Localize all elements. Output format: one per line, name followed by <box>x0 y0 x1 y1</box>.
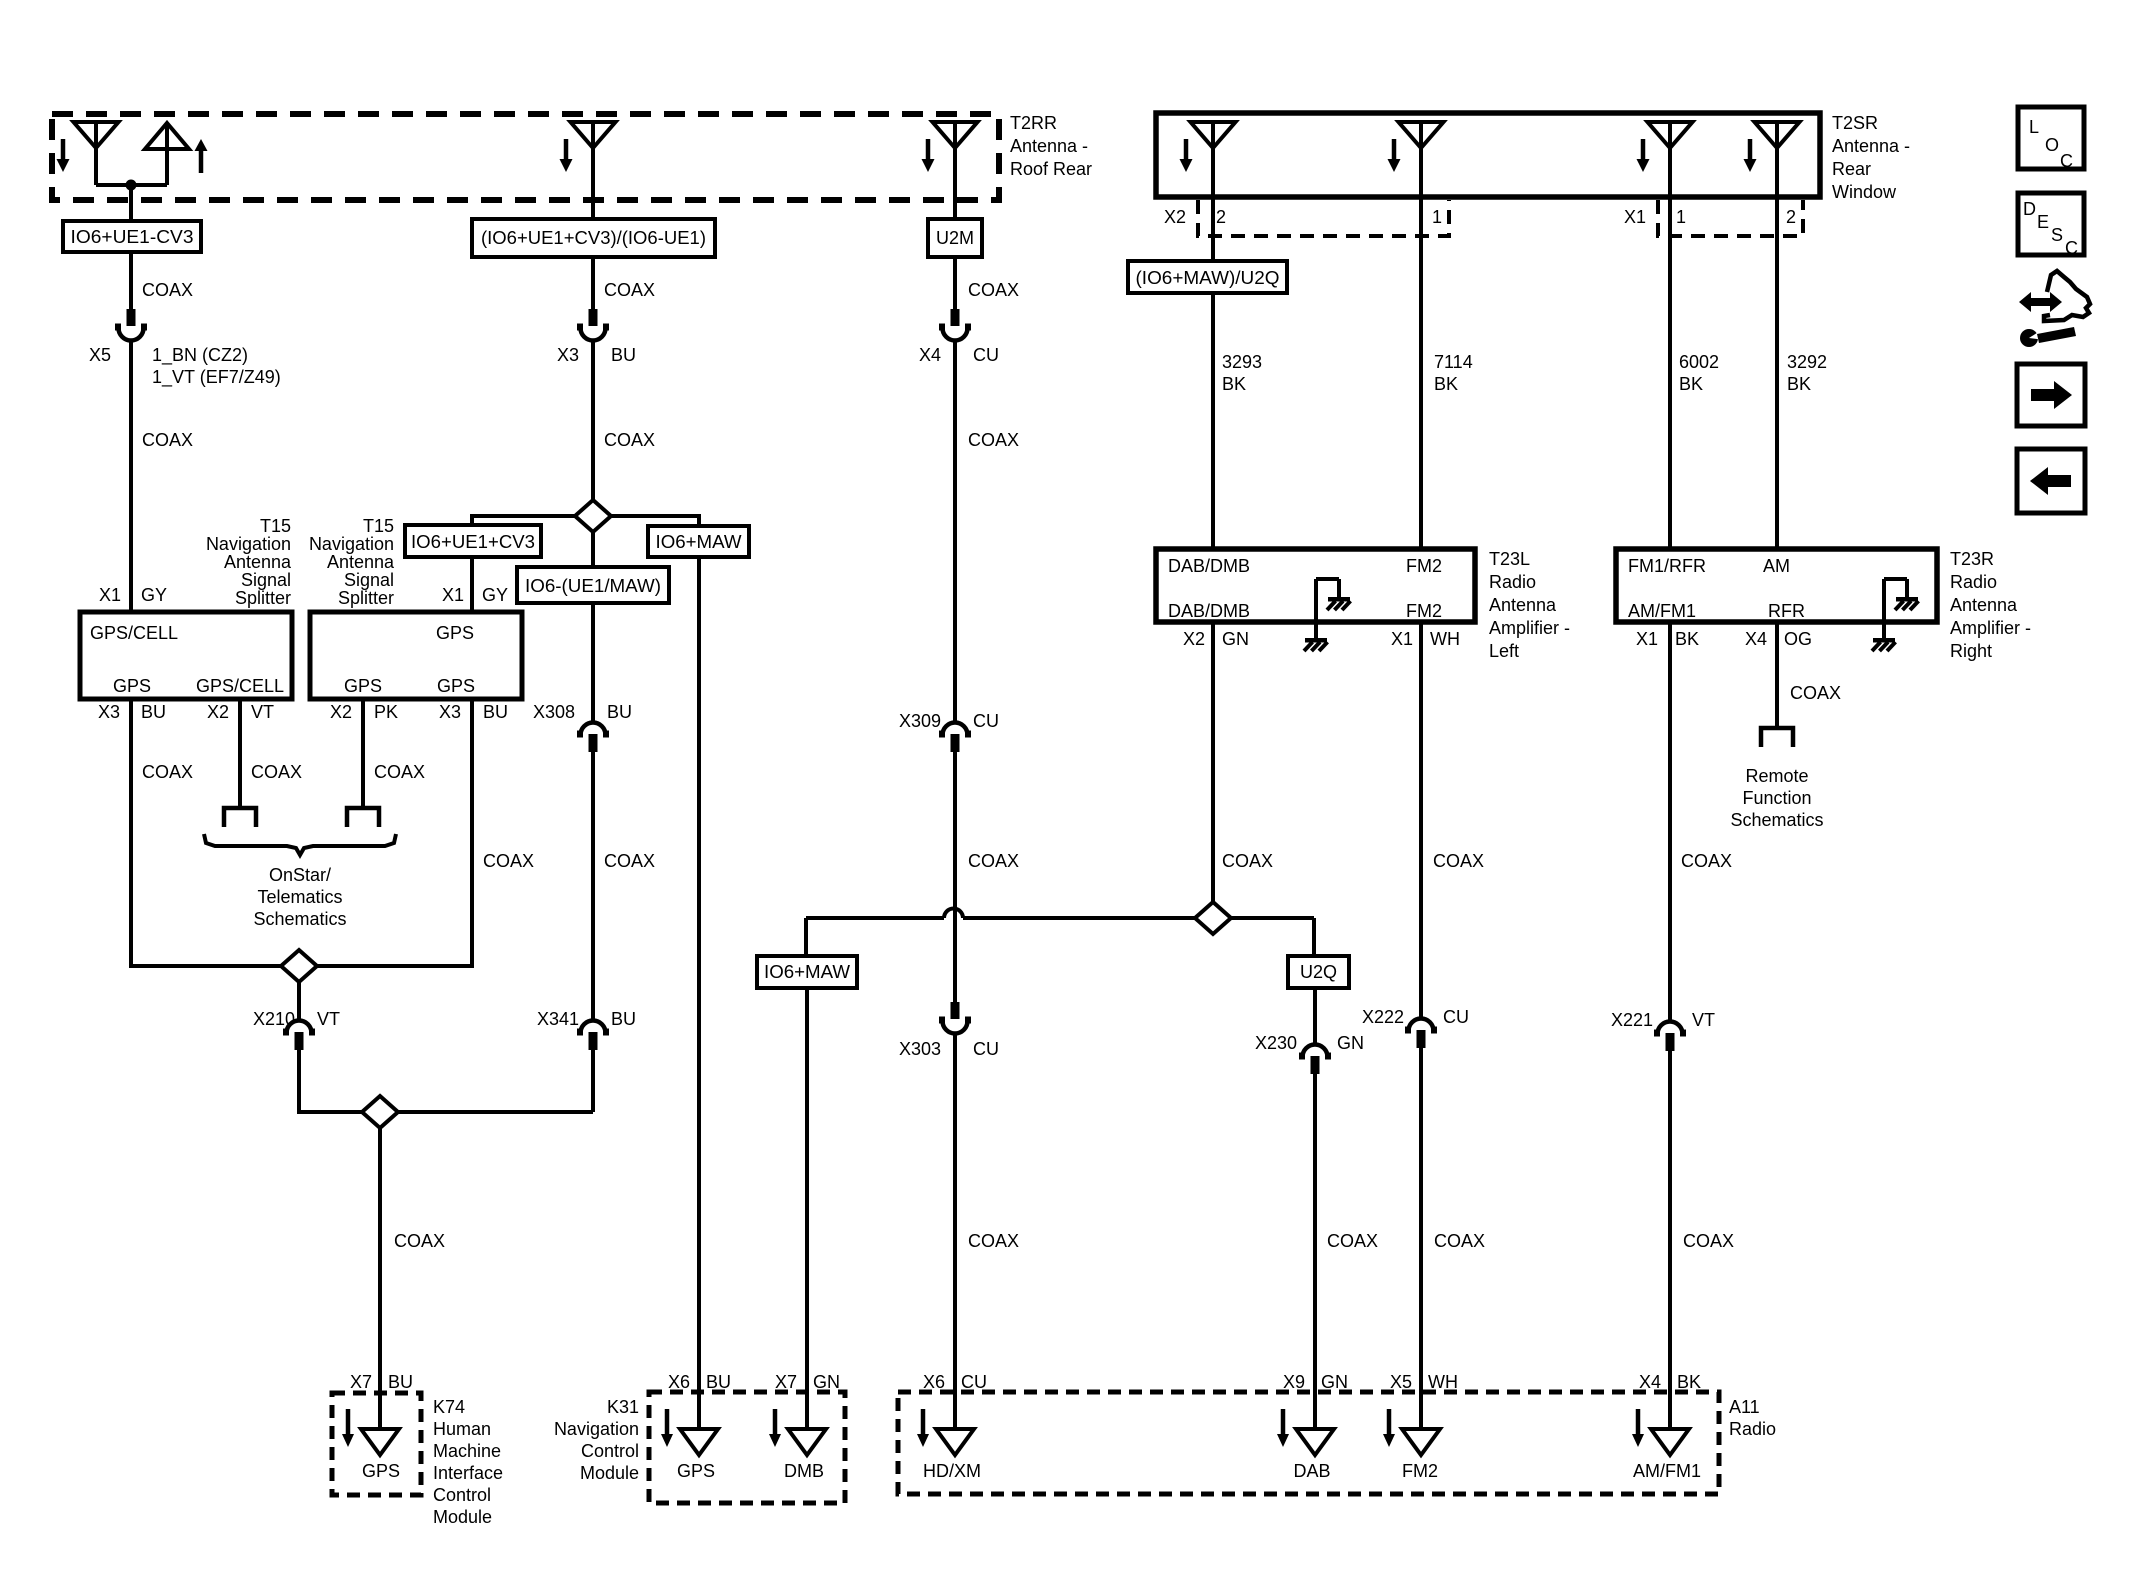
svg-text:GPS: GPS <box>344 676 382 696</box>
svg-text:DAB: DAB <box>1293 1461 1330 1481</box>
connector X5 <box>127 309 136 326</box>
arrow down K74 <box>346 1409 351 1434</box>
antenna T2SR element 3 <box>1648 122 1693 148</box>
svg-text:COAX: COAX <box>968 1231 1019 1251</box>
svg-text:AM/FM1: AM/FM1 <box>1628 601 1696 621</box>
svg-text:X6: X6 <box>668 1372 690 1392</box>
arrow down (receive) <box>61 139 66 159</box>
svg-text:2: 2 <box>1216 207 1226 227</box>
svg-text:COAX: COAX <box>483 851 534 871</box>
ground T23R outer <box>1873 638 1895 643</box>
svg-text:Interface: Interface <box>433 1463 503 1483</box>
svg-text:VT: VT <box>251 702 274 722</box>
svg-text:X230: X230 <box>1255 1033 1297 1053</box>
svg-text:(IO6+UE1+CV3)/(IO6-UE1): (IO6+UE1+CV3)/(IO6-UE1) <box>481 228 706 248</box>
svg-text:X210: X210 <box>253 1009 295 1029</box>
svg-text:HD/XM: HD/XM <box>923 1461 981 1481</box>
svg-text:FM1/RFR: FM1/RFR <box>1628 556 1706 576</box>
wire splitter2 GPS (X3 BU) down to horizontal <box>470 699 474 968</box>
svg-text:X309: X309 <box>899 711 941 731</box>
svg-text:COAX: COAX <box>1790 683 1841 703</box>
svg-text:IO6+UE1+CV3: IO6+UE1+CV3 <box>411 532 535 552</box>
arrow down T2SR element 3 <box>1641 139 1646 159</box>
svg-text:BU: BU <box>388 1372 413 1392</box>
svg-text:A11: A11 <box>1729 1397 1760 1417</box>
arrow down A11 AM/FM1 <box>1636 1409 1641 1434</box>
svg-text:E: E <box>2037 212 2049 232</box>
connector X303 <box>951 1002 960 1019</box>
svg-text:Antenna: Antenna <box>1489 595 1557 615</box>
svg-text:AM: AM <box>1763 556 1790 576</box>
ground T23L outer <box>1305 638 1327 643</box>
svg-text:COAX: COAX <box>1681 851 1732 871</box>
svg-text:GPS/CELL: GPS/CELL <box>90 623 178 643</box>
svg-text:RFR: RFR <box>1768 601 1805 621</box>
module K31 Navigation Control Module (dashed box) <box>649 1392 845 1503</box>
svg-text:T2RR: T2RR <box>1010 113 1057 133</box>
svg-text:GPS: GPS <box>113 676 151 696</box>
svg-text:Antenna: Antenna <box>327 552 395 572</box>
svg-text:X3: X3 <box>98 702 120 722</box>
wire mast center antenna <box>591 122 595 219</box>
svg-text:COAX: COAX <box>374 762 425 782</box>
svg-text:FM2: FM2 <box>1406 601 1442 621</box>
svg-text:X2: X2 <box>1183 629 1205 649</box>
icon compare wrench <box>2020 329 2038 347</box>
wire horizontal y=1112 <box>299 1110 593 1114</box>
svg-text:COAX: COAX <box>1433 851 1484 871</box>
svg-text:C: C <box>2065 238 2078 258</box>
wire T2SR X1 pin1 to T23R FM1/RFR <box>1668 197 1672 549</box>
svg-text:BK: BK <box>1222 374 1246 394</box>
wire U2M box to X4 <box>953 257 957 310</box>
svg-text:CU: CU <box>1443 1007 1469 1027</box>
off-page bracket (Remote Function) <box>1761 728 1793 747</box>
svg-text:L: L <box>2029 117 2039 137</box>
junction dot <box>126 180 137 191</box>
svg-text:X7: X7 <box>775 1372 797 1392</box>
svg-text:COAX: COAX <box>142 762 193 782</box>
arrow down A11 HD/XM <box>921 1409 926 1434</box>
wire mast T2SR element 1 <box>1211 122 1215 197</box>
svg-text:X5: X5 <box>1390 1372 1412 1392</box>
svg-text:X1: X1 <box>1636 629 1658 649</box>
svg-text:Radio: Radio <box>1729 1419 1776 1439</box>
svg-text:CU: CU <box>973 711 999 731</box>
antenna symbol A11 AM/FM1 <box>1651 1429 1689 1455</box>
wire X222 down to A11 FM2 <box>1419 1048 1423 1430</box>
svg-text:GPS: GPS <box>437 676 475 696</box>
component T23L Radio Antenna Amplifier - Left box <box>1156 549 1475 622</box>
svg-text:IO6+MAW: IO6+MAW <box>764 962 850 982</box>
component T23R Radio Antenna Amplifier - Right box <box>1616 549 1937 622</box>
svg-text:COAX: COAX <box>604 430 655 450</box>
svg-text:COAX: COAX <box>968 430 1019 450</box>
wire splitter1 GPS/CELL (X2 VT) to OnStar bracket <box>238 699 242 810</box>
svg-text:X4: X4 <box>1639 1372 1661 1392</box>
svg-text:3293: 3293 <box>1222 352 1262 372</box>
svg-text:COAX: COAX <box>604 851 655 871</box>
wire X341 to horizontal junction <box>591 1050 595 1112</box>
svg-text:X308: X308 <box>533 702 575 722</box>
svg-text:2: 2 <box>1786 207 1796 227</box>
wire diamond to X210 <box>297 981 301 1020</box>
svg-text:X341: X341 <box>537 1009 579 1029</box>
svg-text:IO6+MAW: IO6+MAW <box>656 532 742 552</box>
svg-text:COAX: COAX <box>142 430 193 450</box>
svg-text:Rear: Rear <box>1832 159 1871 179</box>
component T15 Navigation Antenna Signal Splitter box (right) <box>310 612 522 699</box>
svg-text:Navigation: Navigation <box>206 534 291 554</box>
svg-text:GPS: GPS <box>362 1461 400 1481</box>
connector X1 dashed bracket under T2SR <box>1658 200 1803 236</box>
splice diamond at 1213,918 <box>1195 902 1231 934</box>
svg-text:T23R: T23R <box>1950 549 1994 569</box>
svg-text:Navigation: Navigation <box>309 534 394 554</box>
connector X3 <box>589 309 598 326</box>
svg-text:COAX: COAX <box>1683 1231 1734 1251</box>
svg-text:WH: WH <box>1428 1372 1458 1392</box>
wire hop over x=955 <box>944 909 963 919</box>
arrow down T2SR element 2 <box>1392 139 1397 159</box>
svg-text:X3: X3 <box>557 345 579 365</box>
module A11 Radio (dashed box) <box>898 1392 1719 1494</box>
svg-text:DAB/DMB: DAB/DMB <box>1168 556 1250 576</box>
svg-text:X9: X9 <box>1283 1372 1305 1392</box>
wire mast T2SR element 2 <box>1419 122 1423 197</box>
wire T2SR X1 pin2 to T23R AM <box>1775 197 1779 549</box>
svg-text:COAX: COAX <box>251 762 302 782</box>
icon compare outline <box>2044 271 2090 321</box>
svg-text:Human: Human <box>433 1419 491 1439</box>
connector X221 <box>1658 1022 1683 1035</box>
svg-text:Amplifier -: Amplifier - <box>1489 618 1570 638</box>
wire IO6+MAW box down to K31 GPS <box>697 557 701 1430</box>
antenna T2SR element 2 <box>1399 122 1444 148</box>
wire horizontal y=918 left segment <box>806 916 944 920</box>
wire X3 to diamond <box>591 340 595 500</box>
wire X4 to X309 <box>953 340 957 722</box>
arrow down A11 FM2 <box>1387 1409 1392 1434</box>
svg-text:3292: 3292 <box>1787 352 1827 372</box>
connector X2 dashed bracket under T2SR <box>1198 200 1449 236</box>
svg-text:Left: Left <box>1489 641 1519 661</box>
svg-text:T2SR: T2SR <box>1832 113 1878 133</box>
svg-text:Antenna -: Antenna - <box>1010 136 1088 156</box>
svg-text:O: O <box>2045 135 2059 155</box>
wire splitter1 GPS (X3 BU) down to horizontal <box>129 699 133 968</box>
svg-text:Antenna: Antenna <box>1950 595 2018 615</box>
svg-text:Radio: Radio <box>1489 572 1536 592</box>
svg-text:Function: Function <box>1742 788 1811 808</box>
svg-text:BU: BU <box>141 702 166 722</box>
module T2RR Antenna - Roof Rear (dashed box) <box>52 114 999 200</box>
svg-text:U2M: U2M <box>936 228 974 248</box>
ground wire T23L <box>1314 579 1318 638</box>
wire T2SR pin2 to (IO6+MAW)/U2Q box <box>1211 197 1215 261</box>
svg-text:FM2: FM2 <box>1406 556 1442 576</box>
svg-text:X303: X303 <box>899 1039 941 1059</box>
splice diamond at 380,1112 <box>362 1096 398 1128</box>
svg-text:BU: BU <box>607 702 632 722</box>
svg-text:BK: BK <box>1675 629 1699 649</box>
wire mast antenna1 to junction <box>94 122 98 185</box>
svg-text:COAX: COAX <box>1434 1231 1485 1251</box>
ground T23L inner <box>1328 597 1350 602</box>
svg-text:X1: X1 <box>442 585 464 605</box>
icon LOC box <box>2018 107 2084 169</box>
svg-text:WH: WH <box>1430 629 1460 649</box>
svg-text:U2Q: U2Q <box>1300 962 1337 982</box>
antenna symbol K31 GPS <box>680 1429 718 1455</box>
svg-text:Signal: Signal <box>344 570 394 590</box>
svg-text:Amplifier -: Amplifier - <box>1950 618 2031 638</box>
brace OnStar/Telematics <box>204 834 396 855</box>
arrow down K31 GPS <box>665 1409 670 1434</box>
icon compare double arrow <box>2019 292 2062 312</box>
svg-text:BU: BU <box>483 702 508 722</box>
ground T23R inner <box>1896 597 1918 602</box>
svg-text:COAX: COAX <box>1327 1231 1378 1251</box>
splice diamond at 299,966 <box>281 950 317 982</box>
svg-text:GPS/CELL: GPS/CELL <box>196 676 284 696</box>
svg-text:BU: BU <box>706 1372 731 1392</box>
svg-text:X221: X221 <box>1611 1010 1653 1030</box>
svg-text:Signal: Signal <box>241 570 291 590</box>
svg-text:BK: BK <box>1679 374 1703 394</box>
module T2SR Antenna - Rear Window (solid box) <box>1156 113 1820 197</box>
connector X4 <box>951 309 960 326</box>
wire left end down to IO6+MAW box 2 <box>804 918 808 956</box>
module K74 Human Machine Interface Control Module (dashed box) <box>332 1393 421 1495</box>
wire mast antenna2 to junction <box>165 123 169 185</box>
connector X309 <box>943 723 968 736</box>
svg-text:(IO6+MAW)/U2Q: (IO6+MAW)/U2Q <box>1136 268 1280 288</box>
svg-text:Antenna: Antenna <box>224 552 292 572</box>
wire mast right antenna <box>953 122 957 219</box>
svg-text:T23L: T23L <box>1489 549 1530 569</box>
svg-text:X1: X1 <box>99 585 121 605</box>
svg-text:Radio: Radio <box>1950 572 1997 592</box>
svg-text:X2: X2 <box>207 702 229 722</box>
svg-text:BK: BK <box>1434 374 1458 394</box>
svg-text:X4: X4 <box>919 345 941 365</box>
svg-text:BK: BK <box>1677 1372 1701 1392</box>
svg-text:BK: BK <box>1787 374 1811 394</box>
component T15 Navigation Antenna Signal Splitter box (left) <box>80 612 292 699</box>
connector X230 <box>1303 1045 1328 1058</box>
wire T23L DAB/DMB down to diamond y918 <box>1211 622 1215 903</box>
wire (IO6+MAW)/U2Q box to T23L DAB/DMB <box>1211 293 1215 549</box>
svg-text:GY: GY <box>482 585 508 605</box>
svg-text:VT: VT <box>1692 1010 1715 1030</box>
svg-text:Control: Control <box>433 1485 491 1505</box>
arrow down T2SR element 4 <box>1748 139 1753 159</box>
svg-text:GN: GN <box>1222 629 1249 649</box>
arrow down K31 DMB <box>773 1409 778 1434</box>
svg-text:X6: X6 <box>923 1372 945 1392</box>
svg-text:OnStar/: OnStar/ <box>269 865 331 885</box>
wire diamond to IO6-(UE1/MAW) box <box>591 532 595 567</box>
svg-text:K31: K31 <box>607 1397 639 1417</box>
svg-text:BU: BU <box>611 1009 636 1029</box>
antenna T2RR center element <box>571 122 616 148</box>
antenna T2SR element 1 <box>1191 122 1236 148</box>
svg-text:Telematics: Telematics <box>257 887 342 907</box>
svg-text:DMB: DMB <box>784 1461 824 1481</box>
arrow down center <box>564 139 569 159</box>
wire mast T2SR element 3 <box>1668 122 1672 197</box>
net label U2Q <box>1288 956 1349 988</box>
antenna symbol A11 HD/XM <box>936 1429 974 1455</box>
antenna transmit element (T2RR) <box>145 123 189 149</box>
svg-text:COAX: COAX <box>968 280 1019 300</box>
wire IO6+MAW box2 down to K31 DMB <box>805 988 809 1430</box>
svg-text:Machine: Machine <box>433 1441 501 1461</box>
net label IO6+MAW (second) <box>757 956 857 988</box>
svg-text:Module: Module <box>433 1507 492 1527</box>
svg-text:VT: VT <box>317 1009 340 1029</box>
svg-text:Schematics: Schematics <box>1730 810 1823 830</box>
svg-text:X2: X2 <box>1164 207 1186 227</box>
arrow down T2SR element 1 <box>1184 139 1189 159</box>
svg-text:AM/FM1: AM/FM1 <box>1633 1461 1701 1481</box>
connector X308 <box>581 723 606 736</box>
svg-text:Splitter: Splitter <box>338 588 394 608</box>
svg-text:7114: 7114 <box>1434 352 1473 372</box>
arrow down A11 DAB <box>1281 1409 1286 1434</box>
net label (IO6+UE1+CV3)/(IO6-UE1) <box>472 219 715 257</box>
svg-text:COAX: COAX <box>142 280 193 300</box>
wire horizontal y=918 right segment <box>963 916 1314 920</box>
wire IO6+UE1-CV3 box to connector X5 <box>129 252 133 310</box>
antenna GPS/CELL receive element (T2RR) <box>74 122 119 148</box>
svg-text:X5: X5 <box>89 345 111 365</box>
svg-text:Module: Module <box>580 1463 639 1483</box>
wire X5 to splitter T15 left <box>129 340 133 612</box>
wire X308 to X341 <box>591 752 595 1020</box>
svg-text:CU: CU <box>973 1039 999 1059</box>
svg-text:X1: X1 <box>1391 629 1413 649</box>
connector X210 <box>287 1021 312 1034</box>
svg-text:T15: T15 <box>260 516 291 536</box>
svg-text:FM2: FM2 <box>1402 1461 1438 1481</box>
svg-text:X2: X2 <box>330 702 352 722</box>
svg-text:1_VT (EF7/Z49): 1_VT (EF7/Z49) <box>152 367 281 388</box>
svg-text:IO6+UE1-CV3: IO6+UE1-CV3 <box>71 227 194 247</box>
wire U2Q box to X230 <box>1313 988 1317 1044</box>
svg-text:CU: CU <box>973 345 999 365</box>
svg-text:COAX: COAX <box>968 851 1019 871</box>
svg-text:D: D <box>2023 199 2036 219</box>
svg-text:COAX: COAX <box>394 1231 445 1251</box>
svg-text:CU: CU <box>961 1372 987 1392</box>
net label IO6+UE1-CV3 <box>63 221 201 252</box>
svg-text:GPS: GPS <box>677 1461 715 1481</box>
antenna symbol A11 FM2 <box>1402 1429 1440 1455</box>
svg-text:S: S <box>2051 225 2063 245</box>
svg-text:Roof Rear: Roof Rear <box>1010 159 1092 179</box>
wire IO6+UE1+CV3 box to splitter2 <box>470 557 474 612</box>
svg-text:BU: BU <box>611 345 636 365</box>
svg-text:X1: X1 <box>1624 207 1646 227</box>
off-page bracket (OnStar right) <box>347 808 379 827</box>
wire X210 to horizontal y=1112 <box>297 1050 301 1114</box>
svg-text:COAX: COAX <box>604 280 655 300</box>
wire horizontal y=966 <box>131 964 472 968</box>
svg-text:K74: K74 <box>433 1397 465 1417</box>
svg-text:X3: X3 <box>439 702 461 722</box>
wire right end down to U2Q box <box>1312 918 1316 956</box>
wire T23R AM/FM1 down to X221 <box>1668 622 1672 1021</box>
svg-text:GN: GN <box>813 1372 840 1392</box>
svg-text:T15: T15 <box>363 516 394 536</box>
antenna T2RR right element (U2M) <box>933 122 978 148</box>
svg-text:6002: 6002 <box>1679 352 1719 372</box>
off-page bracket (OnStar left) <box>224 808 256 827</box>
wire T23R RFR down to bracket <box>1775 622 1779 730</box>
svg-text:Schematics: Schematics <box>253 909 346 929</box>
svg-text:1: 1 <box>1432 207 1442 227</box>
splice diamond at 593,516 <box>472 516 699 528</box>
svg-text:GN: GN <box>1337 1033 1364 1053</box>
svg-text:X4: X4 <box>1745 629 1767 649</box>
wire X221 down to A11 AM/FM1 <box>1668 1051 1672 1430</box>
icon back arrow box <box>2017 449 2085 513</box>
net label IO6+UE1+CV3 <box>405 525 541 557</box>
wire IO6-(UE1/MAW) to X308 <box>591 603 595 722</box>
wire X230 down to A11 DAB <box>1313 1074 1317 1430</box>
net label (IO6+MAW)/U2Q <box>1128 261 1287 293</box>
connector X341 <box>581 1021 606 1034</box>
arrow down right <box>926 139 931 159</box>
svg-text:X222: X222 <box>1362 1007 1404 1027</box>
antenna symbol A11 DAB <box>1296 1429 1334 1455</box>
svg-text:GPS: GPS <box>436 623 474 643</box>
svg-text:COAX: COAX <box>1222 851 1273 871</box>
wire mast T2SR element 4 <box>1775 122 1779 197</box>
ground wire T23R <box>1882 579 1886 638</box>
svg-text:1_BN (CZ2): 1_BN (CZ2) <box>152 345 248 366</box>
net label IO6-(UE1/MAW) <box>517 567 669 603</box>
connector X222 <box>1409 1018 1434 1031</box>
svg-text:C: C <box>2060 151 2073 171</box>
icon DESC box <box>2018 193 2084 255</box>
net label IO6+MAW <box>648 526 749 557</box>
arrow up (transmit) <box>195 139 208 151</box>
svg-text:1: 1 <box>1676 207 1686 227</box>
svg-text:Right: Right <box>1950 641 1992 661</box>
svg-text:GY: GY <box>141 585 167 605</box>
wire T23L FM2 down to X222 <box>1419 622 1423 1018</box>
icon forward arrow box <box>2017 364 2085 426</box>
wire antenna junction to IO6+UE1-CV3 box <box>129 185 133 221</box>
antenna symbol K74 GPS <box>361 1429 399 1455</box>
svg-text:Window: Window <box>1832 182 1897 202</box>
svg-text:OG: OG <box>1784 629 1812 649</box>
wire X303 down to A11 HD/XM <box>953 1033 957 1430</box>
wire (IO6+UE1+CV3)/(IO6-UE1) box to X3 <box>591 257 595 310</box>
svg-text:Splitter: Splitter <box>235 588 291 608</box>
wire diamond to K74 GPS <box>378 1127 382 1430</box>
net label U2M <box>928 219 982 257</box>
antenna symbol K31 DMB <box>788 1429 826 1455</box>
svg-text:GN: GN <box>1321 1372 1348 1392</box>
svg-text:X7: X7 <box>350 1372 372 1392</box>
svg-text:Antenna -: Antenna - <box>1832 136 1910 156</box>
wire X309 to X303 <box>953 752 957 1003</box>
svg-text:Remote: Remote <box>1745 766 1808 786</box>
